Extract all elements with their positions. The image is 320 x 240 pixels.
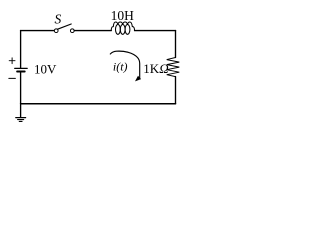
switch S right terminal [70, 29, 74, 33]
inductor loop 1 [116, 25, 121, 35]
inductor L1 10H coil arches [111, 22, 134, 31]
svg-text:S: S [55, 11, 62, 26]
inductor loop 2 [120, 25, 125, 35]
wire right side upper [175, 31, 177, 58]
inductor loop 3 [125, 25, 130, 35]
wire right side lower [175, 77, 177, 104]
wire top-left horizontal [21, 30, 54, 32]
wire switch to inductor [74, 30, 111, 32]
ground bar 2 [18, 119, 24, 121]
current arrow i(t) arc [110, 51, 139, 78]
svg-text:1KΩ: 1KΩ [143, 61, 168, 76]
wire bottom [21, 103, 176, 105]
wire left lower (battery to ground) [20, 71, 22, 117]
battery minus sign [9, 77, 16, 79]
wire left upper (corner to battery) [20, 31, 22, 69]
wire inductor to top-right corner [135, 30, 176, 32]
svg-text:i(t): i(t) [113, 60, 128, 74]
ground bar 1 [16, 117, 26, 119]
battery V1 positive plate [15, 67, 28, 69]
current arrow i(t) arrowhead [135, 76, 141, 82]
ground bar 3 [19, 120, 22, 122]
battery plus sign [9, 60, 15, 62]
switch S blade [58, 24, 72, 29]
battery V1 negative plate [17, 71, 25, 73]
svg-text:10V: 10V [34, 62, 57, 77]
switch S left terminal [54, 29, 58, 33]
svg-text:10H: 10H [111, 8, 135, 23]
resistor R1 1K zigzag [167, 58, 180, 77]
